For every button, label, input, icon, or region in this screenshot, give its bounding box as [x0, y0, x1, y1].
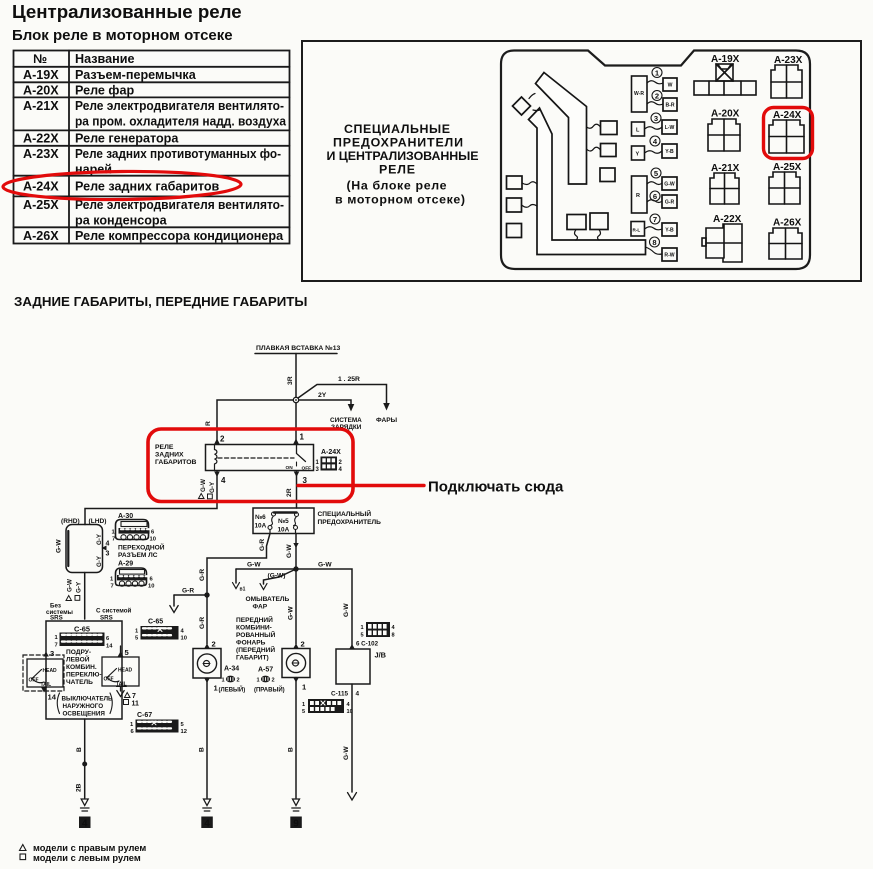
wire branch 2Y to charging system [299, 400, 351, 404]
svg-text:7: 7 [653, 215, 657, 224]
wire: holder Y to tag Y-B [645, 151, 663, 154]
wire: holder W-R to tag W [647, 81, 663, 84]
svg-text:И ЦЕНТРАЛИЗОВАННЫЕ: И ЦЕНТРАЛИЗОВАННЫЕ [327, 149, 479, 163]
svg-text:РОВАННЫЙ: РОВАННЫЙ [236, 630, 276, 639]
bus bar band A [536, 73, 587, 185]
svg-text:10: 10 [150, 537, 156, 543]
svg-text:G-Y: G-Y [209, 481, 216, 493]
fuse holder Y [632, 146, 645, 160]
svg-text:ГАБАРИТ): ГАБАРИТ) [236, 655, 269, 662]
svg-text:1: 1 [361, 625, 364, 631]
svg-text:10: 10 [148, 584, 154, 590]
svg-text:G-W: G-W [200, 479, 207, 492]
svg-text:5: 5 [302, 709, 305, 715]
svg-text:G-W: G-W [56, 539, 63, 553]
relay table text [23, 52, 287, 243]
svg-text:10А: 10А [278, 527, 290, 534]
svg-text:С-115: С-115 [331, 691, 348, 698]
relay box outline in engine compartment [501, 51, 810, 270]
svg-text:G-W: G-W [343, 603, 350, 617]
svg-text:2: 2 [212, 640, 216, 649]
svg-text:А-22Х: А-22Х [23, 132, 59, 146]
relay A-23X [771, 55, 803, 98]
svg-text:G-R: G-R [199, 617, 206, 629]
svg-text:А-21Х: А-21Х [23, 99, 59, 113]
relay table frame [14, 51, 290, 244]
svg-text:14: 14 [106, 644, 113, 650]
svg-text:РАЗЪЕМ ЛС: РАЗЪЕМ ЛС [118, 552, 158, 559]
relay A-26X [769, 218, 802, 260]
svg-text:Подключать сюда: Подключать сюда [428, 479, 564, 496]
wire from fuse No5 (G-W) down [295, 534, 297, 567]
red oval highlight on row A-24X [3, 170, 241, 200]
svg-text:ФОНАРЬ: ФОНАРЬ [236, 640, 266, 647]
fuse No6 [272, 512, 276, 516]
svg-text:Реле компрессора кондиционера: Реле компрессора кондиционера [75, 229, 284, 243]
wire from C-65 box to ground [84, 719, 86, 798]
relay A-21X [710, 163, 740, 204]
fuse No5 [295, 513, 299, 517]
svg-text:Y-B: Y-B [665, 149, 674, 155]
page arrow bottom of G-W wire [348, 793, 357, 801]
wire lamp A-57 to ground [293, 678, 299, 683]
svg-text:10: 10 [181, 636, 187, 642]
svg-text:А-29: А-29 [118, 561, 133, 568]
svg-text:ЛЕВОЙ: ЛЕВОЙ [66, 655, 90, 664]
fuse number 5 [651, 168, 661, 178]
lamp A-34 (front combination lamp, left) [204, 644, 210, 649]
svg-text:4: 4 [221, 476, 226, 485]
svg-text:1: 1 [257, 678, 260, 684]
relay A-24X body [206, 445, 314, 471]
svg-text:№6: №6 [255, 514, 266, 521]
svg-text:в1: в1 [240, 587, 246, 593]
wire tag Y-B [662, 144, 677, 158]
svg-text:4: 4 [204, 819, 210, 830]
G-R branch left page arrow [174, 594, 207, 596]
svg-text:G-W: G-W [288, 606, 295, 620]
svg-text:КОМБИНИ-: КОМБИНИ- [236, 625, 272, 632]
svg-text:1: 1 [222, 678, 225, 684]
svg-text:7: 7 [55, 643, 58, 649]
svg-text:С системой: С системой [96, 608, 132, 615]
svg-text:6: 6 [653, 192, 657, 201]
relay A-19X jumper connector [694, 54, 756, 95]
wire: bus B to tag R-W [646, 247, 663, 254]
svg-text:1 . 25R: 1 . 25R [338, 376, 360, 383]
svg-text:ЗАДНИЕ ГАБАРИТЫ, ПЕРЕДНИЕ ГАБА: ЗАДНИЕ ГАБАРИТЫ, ПЕРЕДНИЕ ГАБАРИТЫ [14, 294, 307, 309]
svg-text:3R: 3R [287, 376, 294, 385]
wire G-W right to J/B [296, 569, 352, 645]
page arrow b1 [235, 569, 237, 583]
wire: holder W-R to tag B-R [647, 102, 663, 105]
svg-text:ПОДРУ-: ПОДРУ- [66, 649, 91, 656]
svg-text:R: R [205, 421, 212, 426]
wire: pad P8 to bus B [598, 230, 601, 241]
svg-text:R-W: R-W [664, 253, 674, 259]
wire tag B-R [663, 98, 677, 111]
fuse holder W-R [632, 76, 648, 112]
junction block J/B [349, 644, 355, 649]
wire from relay pin 3 down [294, 472, 300, 478]
relay A-20X [708, 109, 740, 152]
fuse number 6 [650, 191, 660, 201]
wire branch 1.25R to headlights [298, 385, 387, 404]
svg-text:B: B [76, 747, 83, 752]
lighting switch right (LHD) [102, 657, 139, 686]
svg-text:B: B [199, 747, 206, 752]
svg-text:7: 7 [111, 584, 114, 590]
svg-text:РЕЛЕ: РЕЛЕ [379, 163, 415, 177]
fuse number 3 [651, 113, 661, 123]
svg-text:(ЛЕВЫЙ): (ЛЕВЫЙ) [219, 686, 246, 694]
G-R wire down to lamp A-34 [206, 595, 208, 644]
svg-text:G-Y: G-Y [96, 555, 103, 567]
svg-text:Реле фар: Реле фар [75, 84, 134, 98]
svg-text:3: 3 [303, 476, 308, 485]
wire from relay pin 4 down [214, 472, 220, 478]
svg-text:G-Y: G-Y [96, 533, 103, 545]
connector C-102 [356, 622, 396, 648]
svg-text:НАРУЖНОГО: НАРУЖНОГО [63, 703, 104, 710]
connector icon A-24X [316, 457, 343, 474]
svg-text:HEAD: HEAD [118, 668, 133, 674]
svg-text:2B: 2B [76, 783, 83, 792]
svg-text:модели с правым рулем: модели с правым рулем [33, 843, 146, 853]
relay A-22X [702, 214, 742, 262]
legend [20, 845, 27, 851]
svg-text:2: 2 [237, 678, 240, 684]
fuse number 1 [652, 68, 662, 78]
svg-text:HEAD: HEAD [43, 668, 58, 674]
svg-text:ПЕРЕДНИЙ: ПЕРЕДНИЙ [236, 615, 273, 624]
svg-text:8: 8 [652, 238, 656, 247]
svg-text:Разъем-перемычка: Разъем-перемычка [75, 68, 197, 82]
pad square P2 [601, 144, 617, 157]
svg-text:ра пром. охладителя надд. возд: ра пром. охладителя надд. воздуха [75, 115, 287, 129]
fuse number 8 [650, 237, 660, 247]
svg-text:ВЫКЛЮЧАТЕЛЬ: ВЫКЛЮЧАТЕЛЬ [62, 696, 114, 703]
svg-text:10: 10 [347, 709, 353, 715]
svg-text:1: 1 [300, 433, 305, 442]
svg-text:9: 9 [293, 819, 299, 830]
bus bar band B (L-shape) [529, 108, 646, 255]
svg-text:G-W: G-W [286, 544, 293, 558]
svg-text:С-65: С-65 [148, 619, 163, 626]
fuse holder L [632, 122, 645, 136]
pad square P6 [507, 224, 522, 238]
wire: diamond pad to bus A [529, 94, 535, 99]
red callout box around relay [148, 429, 353, 502]
svg-text:3: 3 [50, 649, 54, 658]
svg-text:(На блоке реле: (На блоке реле [347, 179, 447, 193]
svg-text:А-34: А-34 [224, 666, 239, 673]
svg-text:G-W: G-W [247, 562, 261, 569]
svg-text:ФАРЫ: ФАРЫ [376, 417, 398, 424]
svg-text:7: 7 [112, 537, 115, 543]
svg-text:ра конденсора: ра конденсора [75, 214, 168, 228]
svg-text:Реле электродвигателя вентилят: Реле электродвигателя вентилято- [75, 99, 284, 113]
fuse holder R [632, 176, 648, 213]
wire tag R-W [662, 248, 677, 261]
svg-text:А-20Х: А-20Х [23, 84, 59, 98]
svg-text:Y: Y [636, 152, 640, 158]
svg-text:11: 11 [132, 701, 140, 708]
svg-text:А-57: А-57 [258, 667, 273, 674]
pad square P5 [507, 198, 522, 212]
connector strip inside C-65 [55, 633, 114, 650]
svg-text:Реле задних габаритов: Реле задних габаритов [75, 180, 220, 194]
svg-text:G-R: G-R [665, 200, 675, 206]
node on G-W wire [294, 567, 298, 571]
svg-text:КОМБИН.: КОМБИН. [66, 664, 97, 671]
svg-text:G-W: G-W [318, 562, 332, 569]
svg-text:2: 2 [272, 678, 275, 684]
column switch assembly box C-65 [46, 621, 122, 719]
svg-text:4: 4 [356, 691, 360, 698]
svg-text:№: № [33, 52, 47, 66]
node: main junction [293, 397, 298, 402]
wire below J/B [351, 684, 353, 792]
svg-text:СИСТЕМА: СИСТЕМА [330, 417, 362, 424]
wire lamp A-34 to ground [204, 678, 210, 683]
svg-text:2: 2 [220, 435, 225, 444]
relay A-25X [769, 162, 802, 204]
svg-text:в моторном отсеке): в моторном отсеке) [335, 193, 465, 207]
svg-text:ПЕРЕХОДНОЙ: ПЕРЕХОДНОЙ [118, 543, 165, 552]
ground (right) [290, 799, 302, 830]
relay coil [215, 450, 217, 464]
wire: bus A to pad P2 [587, 147, 601, 151]
wire: pad P7 to bus B [575, 230, 578, 241]
wire tag W [663, 78, 677, 91]
svg-text:Реле задних противотуманных фо: Реле задних противотуманных фо- [75, 147, 281, 161]
svg-text:А-24Х: А-24Х [321, 449, 341, 456]
special fuse block [253, 508, 314, 534]
wire below RHD/LHD connector [84, 573, 86, 620]
svg-text:W-R: W-R [634, 91, 644, 97]
branch (G-W) headlamp washer [264, 569, 297, 584]
ground (middle) [201, 799, 213, 830]
fuse number 4 [650, 136, 660, 146]
svg-text:(ПРАВЫЙ): (ПРАВЫЙ) [254, 686, 285, 694]
relay A-24X [769, 110, 804, 153]
svg-text:ПРЕДОХРАНИТЕЛЬ: ПРЕДОХРАНИТЕЛЬ [318, 519, 382, 526]
svg-text:Блок реле в моторном отсеке: Блок реле в моторном отсеке [12, 27, 233, 44]
fuse holder R-L [631, 222, 645, 237]
svg-text:Централизованные реле: Централизованные реле [12, 1, 242, 22]
svg-text:2: 2 [655, 91, 659, 100]
red callout line [298, 484, 424, 487]
svg-text:А-23Х: А-23Х [23, 147, 59, 161]
pad square P4 [507, 176, 523, 189]
svg-text:модели с левым рулем: модели с левым рулем [33, 853, 141, 863]
svg-text:(ПЕРЕДНИЙ: (ПЕРЕДНИЙ [236, 645, 275, 654]
relay switch contact [297, 445, 306, 462]
svg-text:А-24Х: А-24Х [23, 180, 59, 194]
svg-text:G-R: G-R [199, 569, 206, 581]
svg-text:ON: ON [286, 465, 294, 471]
svg-text:2: 2 [301, 640, 305, 649]
svg-text:10А: 10А [255, 523, 267, 530]
lighting switch left (RHD, dashed) [23, 655, 64, 691]
svg-text:№5: №5 [278, 518, 289, 525]
svg-text:А-26Х: А-26Х [23, 229, 59, 243]
svg-text:Y-B: Y-B [665, 228, 674, 234]
svg-text:R: R [636, 193, 640, 199]
wire from fusible link down [295, 354, 297, 398]
svg-text:СПЕЦИАЛЬНЫЙ: СПЕЦИАЛЬНЫЙ [318, 509, 372, 518]
svg-text:12: 12 [181, 729, 187, 735]
svg-text:ПЛАВКАЯ ВСТАВКА №13: ПЛАВКАЯ ВСТАВКА №13 [256, 345, 341, 352]
svg-text:С-65: С-65 [74, 625, 90, 634]
svg-text:ОСВЕЩЕНИЯ: ОСВЕЩЕНИЯ [63, 711, 106, 718]
wire to relay pin 1 [295, 403, 297, 440]
svg-text:L-W: L-W [665, 125, 675, 131]
svg-text:ЧАТЕЛЬ: ЧАТЕЛЬ [66, 679, 93, 686]
svg-text:OFF: OFF [302, 466, 312, 472]
svg-text:РЕЛЕ: РЕЛЕ [155, 444, 174, 451]
svg-text:8: 8 [392, 633, 395, 639]
pad square P7 [567, 215, 586, 230]
relay actuation dashed link [218, 457, 294, 459]
switch lower arrow to 7/11 [120, 686, 122, 691]
svg-text:4: 4 [82, 819, 88, 830]
svg-text:ПЕРЕКЛЮ-: ПЕРЕКЛЮ- [66, 672, 102, 679]
pad square P1 [601, 121, 618, 135]
svg-text:W: W [668, 83, 673, 89]
svg-text:1: 1 [302, 702, 305, 708]
wire: pad P5 to bus B [522, 205, 538, 208]
wire: bus A to pad P1 [587, 124, 601, 128]
svg-text:ЗАДНИХ: ЗАДНИХ [155, 452, 184, 459]
svg-text:2R: 2R [286, 488, 293, 497]
svg-text:G-W: G-W [664, 182, 675, 188]
svg-text:G-R: G-R [182, 588, 194, 595]
fuse number 2 [652, 91, 662, 101]
wire tag Y-B 2 [662, 223, 677, 236]
panel border (special fuses panel) [302, 41, 861, 281]
svg-text:G-W: G-W [67, 579, 74, 592]
node on G-R wire [205, 593, 209, 597]
svg-text:B: B [288, 747, 295, 752]
ground (left) [79, 799, 91, 830]
fuse number 7 [650, 214, 660, 224]
wire: holder L to tag L-W [645, 127, 663, 130]
wire: diamond pad to bus B [533, 109, 540, 112]
svg-text:6 С-102: 6 С-102 [356, 641, 379, 648]
svg-text:ГАБАРИТОВ: ГАБАРИТОВ [155, 459, 197, 466]
wire G-W left to washer [236, 568, 296, 570]
wire: pad P4 to bus B [522, 182, 537, 185]
svg-text:A-26X: A-26X [773, 218, 802, 229]
wire to relay pin 2 (left) [217, 400, 293, 440]
panel caption text [327, 122, 479, 207]
svg-text:B-R: B-R [665, 103, 674, 109]
svg-text:А-19Х: А-19Х [23, 68, 59, 82]
lamp A-57 (front combination lamp, right) [295, 569, 297, 644]
svg-text:С-67: С-67 [137, 712, 152, 719]
svg-text:R-L: R-L [633, 228, 641, 233]
svg-text:А-25Х: А-25Х [23, 198, 59, 212]
svg-text:A-20X: A-20X [711, 109, 740, 120]
svg-text:(G-W): (G-W) [268, 573, 286, 580]
svg-text:ОМЫВАТЕЛЬ: ОМЫВАТЕЛЬ [246, 596, 290, 603]
svg-text:3: 3 [654, 114, 658, 123]
svg-text:нарей: нарей [75, 163, 112, 177]
pad square P3 [600, 168, 615, 182]
svg-text:G-W: G-W [343, 746, 350, 760]
svg-text:G-R: G-R [259, 539, 266, 551]
svg-text:СПЕЦИАЛЬНЫЕ: СПЕЦИАЛЬНЫЕ [344, 122, 450, 136]
wire: holder R-L to tag Y-B [645, 227, 663, 230]
wire tag G-R [662, 195, 677, 208]
svg-text:Название: Название [75, 52, 134, 66]
wire: holder R to tag G-W [647, 182, 662, 185]
svg-text:ФАР: ФАР [253, 604, 268, 611]
svg-text:ПРЕДОХРАНИТЕЛИ: ПРЕДОХРАНИТЕЛИ [333, 136, 463, 150]
red highlight box around relay A-24X [764, 108, 813, 159]
svg-text:7: 7 [132, 693, 136, 700]
diamond pad [513, 97, 531, 115]
wire tag G-W [662, 177, 677, 190]
svg-text:J/B: J/B [375, 651, 387, 660]
wire: holder R to tag G-R [647, 200, 662, 203]
connector C-115 [302, 699, 353, 715]
svg-text:5: 5 [361, 633, 364, 639]
pad square P8 [590, 213, 608, 230]
svg-text:3: 3 [106, 551, 110, 558]
svg-text:TAIL: TAIL [116, 682, 127, 688]
wire from fuse No6 (G-R) [207, 534, 270, 593]
svg-text:G-Y: G-Y [76, 581, 83, 593]
svg-text:14: 14 [48, 693, 57, 702]
svg-text:Реле генератора: Реле генератора [75, 132, 179, 146]
svg-text:2Y: 2Y [318, 392, 327, 399]
wire tag L-W [662, 120, 677, 134]
